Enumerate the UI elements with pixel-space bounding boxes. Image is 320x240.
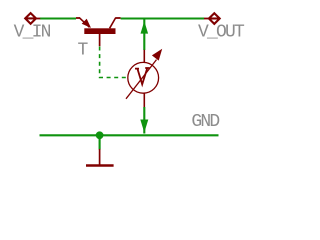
transistor T — [76, 18, 121, 47]
svg-text:V_IN: V_IN — [14, 23, 51, 43]
wire (probe link down) — [143, 107, 145, 134]
port V_OUT — [204, 13, 220, 24]
probe arrow up — [141, 21, 149, 34]
port V_IN — [25, 13, 40, 24]
wire — [40, 17, 76, 19]
probe arrow down — [140, 120, 148, 133]
wire — [121, 17, 205, 19]
wire (dashed control line) — [100, 47, 128, 78]
wire (ground stub) — [99, 135, 101, 149]
wire GND rail — [40, 134, 219, 136]
svg-text:T: T — [78, 40, 89, 60]
junction — [96, 131, 104, 139]
voltmeter — [126, 49, 162, 107]
svg-text:V_OUT: V_OUT — [198, 22, 245, 42]
svg-text:GND: GND — [191, 112, 219, 132]
wire (probe link up) — [143, 19, 145, 51]
ground — [86, 149, 114, 166]
